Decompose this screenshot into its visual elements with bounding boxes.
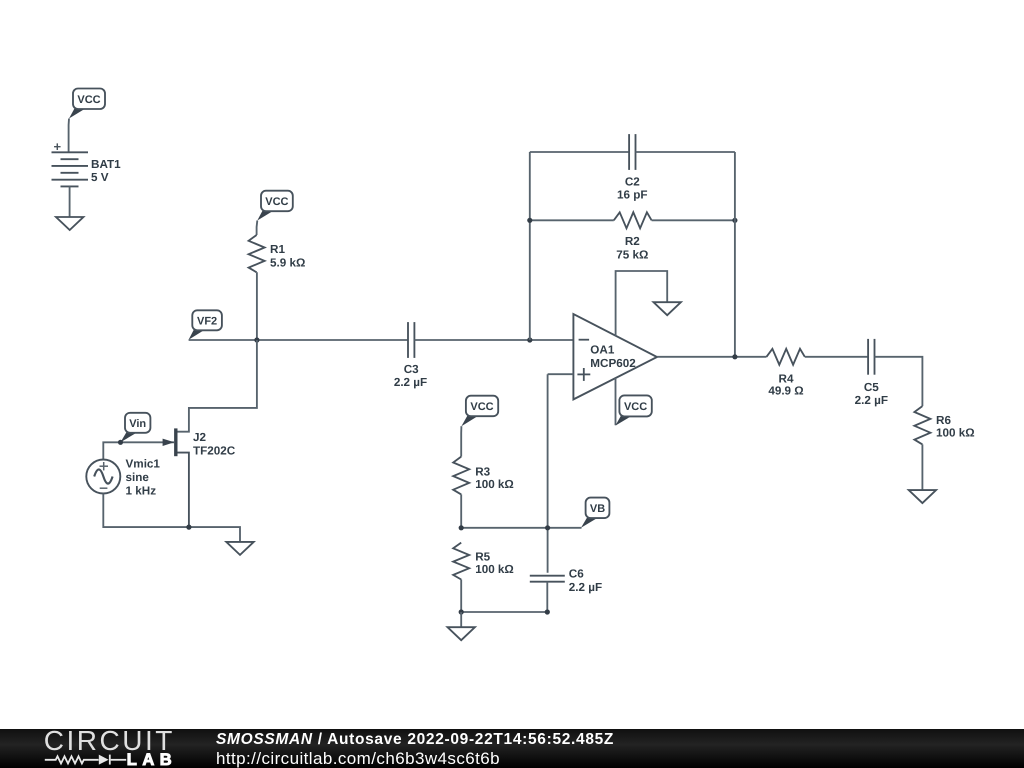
wire R3 to node VB [460,494,462,527]
svg-text:R1: R1 [270,243,285,256]
wire feedback left vertical [529,152,531,340]
label Vmic1 sine 1 kHz [126,457,161,497]
svg-text:sine: sine [126,471,150,484]
ground (divider) [448,627,475,640]
capacitor C2 [629,134,635,170]
junction R3/R5/VB [459,525,464,530]
svg-text:2.2 µF: 2.2 µF [394,376,427,389]
net VCC flag (R1) [257,191,293,221]
footer bar [0,729,1024,768]
svg-text:R4: R4 [779,372,794,385]
wire C6 bottom [546,582,548,612]
resistor R5 [453,543,469,580]
svg-text:1 kHz: 1 kHz [126,484,157,497]
wire node VB row [461,527,581,529]
wire R4 to C5 [805,356,868,358]
Vmic1 plus sign [100,462,109,470]
junction Vin attach [118,440,123,445]
svg-text:100 kΩ: 100 kΩ [475,563,514,576]
battery BAT1 [52,139,89,186]
junction output/feedback [732,354,737,359]
transistor J2 gate bar [174,428,177,456]
label C2 16 pF [617,176,648,202]
label R2 75 kOhm [616,235,648,261]
label C5 2.2 uF [855,381,888,407]
wire C5 to R6 [875,357,923,406]
svg-text:VCC: VCC [265,196,288,208]
wire to ground (divider) [460,612,462,627]
wire R1 to node VF2 [256,272,258,340]
net VCC flag (battery) [69,89,105,119]
resistor R3 [453,457,469,495]
resistor R2 [614,212,652,228]
junction J2 source / ground row [186,525,191,530]
capacitor C5 [868,339,874,375]
ground (op-amp V+) [654,302,681,315]
footer url [216,749,500,768]
transistor J2 source lead [178,453,189,527]
svg-text:VF2: VF2 [197,315,217,327]
svg-text:5.9 kΩ: 5.9 kΩ [270,256,305,269]
op-amp - pin mark [579,339,590,341]
net VCC flag (op-amp V-) [615,395,651,425]
wire R2 right [652,219,735,221]
ground (battery) [56,217,83,230]
svg-text:OA1: OA1 [590,344,615,357]
Vmic1 sine wave [94,469,112,483]
svg-text:C2: C2 [625,176,640,189]
wire feedback right vertical [734,152,736,357]
op-amp OA1 body [573,314,657,399]
wire R6 to ground [921,444,923,490]
junction +input/VB row [545,525,550,530]
junction R5 bottom [459,609,464,614]
svg-text:VCC: VCC [470,401,493,413]
wire VCC flag to R3 [460,426,462,456]
wire VCC flag to R1 [256,221,259,236]
wire VF2 node to C3 [189,339,408,341]
svg-text:R6: R6 [936,414,951,427]
junction R2 right [732,218,737,223]
net Vin flag [121,413,151,443]
ground (R6) [909,490,936,503]
label C6 2.2 uF [569,568,602,594]
svg-text:R3: R3 [475,465,490,478]
wire battery - to ground [69,186,71,217]
svg-text:VCC: VCC [624,401,647,413]
junction C6 bottom [545,609,550,614]
wire VCC flag to battery + [68,119,70,153]
svg-text:J2: J2 [193,431,207,444]
resistor R1 [249,235,265,272]
wire bottom row R5/C6 [461,611,547,613]
svg-text:+: + [54,139,62,154]
CircuitLab logo text [44,725,175,757]
svg-text:MCP602: MCP602 [590,357,636,370]
label R1 5.9 kOhm [270,243,305,269]
svg-text:VB: VB [590,503,605,515]
wire op-amp V- pin [615,378,617,425]
wire C2 top left [530,151,629,153]
wire C3 to op-amp - input [414,339,573,341]
svg-text:Vmic1: Vmic1 [126,457,161,470]
net VB flag [581,498,609,528]
op-amp + pin mark [577,368,590,381]
net VCC flag (R3) [461,396,498,427]
svg-text:BAT1: BAT1 [91,158,121,171]
wire + input horizontal [548,373,574,375]
label BAT1 5 V [91,158,121,184]
svg-text:C3: C3 [404,363,419,376]
wire R2 left [530,219,614,221]
svg-text:2.2 µF: 2.2 µF [855,394,888,407]
svg-text:VCC: VCC [77,94,100,106]
svg-text:Vin: Vin [129,418,146,430]
resistor R4 [767,349,805,365]
capacitor C3 [408,322,414,358]
svg-text:75 kΩ: 75 kΩ [616,249,648,262]
wire gate to Vmic1 [103,442,174,459]
wire C2 top right [636,151,735,153]
svg-text:16 pF: 16 pF [617,188,648,201]
logo doodle: wire-resistor-diode [0,729,200,768]
svg-text:2.2 µF: 2.2 µF [569,581,602,594]
svg-text:C6: C6 [569,568,584,581]
svg-text:100 kΩ: 100 kΩ [475,478,514,491]
resistor R6 [914,406,930,444]
source Vmic1 circle [86,460,120,494]
label R5 100 kOhm [475,550,514,576]
gate arrowhead J2 [163,439,175,446]
svg-text:R2: R2 [625,235,640,248]
capacitor C6 [530,576,565,582]
svg-text:R5: R5 [475,550,490,563]
wire R5 bottom [460,580,462,613]
wire + input vertical to C6 [547,374,549,573]
junction feedback left / - input [527,337,532,342]
svg-text:5 V: 5 V [91,171,109,184]
svg-text:TF202C: TF202C [193,445,236,458]
svg-text:49.9 Ω: 49.9 Ω [768,385,803,398]
junction R2 left [527,218,532,223]
label R4 49.9 Ohm [768,372,803,397]
Vmic1 minus sign [100,487,108,489]
net VF2 flag [189,310,222,340]
label C3 2.2 uF [394,363,427,389]
svg-text:100 kΩ: 100 kΩ [936,426,975,439]
label R6 100 kOhm [936,414,975,440]
svg-text:C5: C5 [864,381,879,394]
ground (J2 source) [226,542,253,555]
wire op-amp output [657,356,767,358]
wire Vmic1 - to ground row [103,494,240,542]
label R3 100 kOhm [475,465,514,491]
label OA1 MCP602 [590,344,636,370]
footer title [216,731,614,749]
label J2 TF202C [193,431,236,458]
wire R1/VF2 down to J2 drain [178,340,257,432]
wire op-amp V+ pin to ground [616,271,668,336]
junction VF2/R1 [254,337,259,342]
